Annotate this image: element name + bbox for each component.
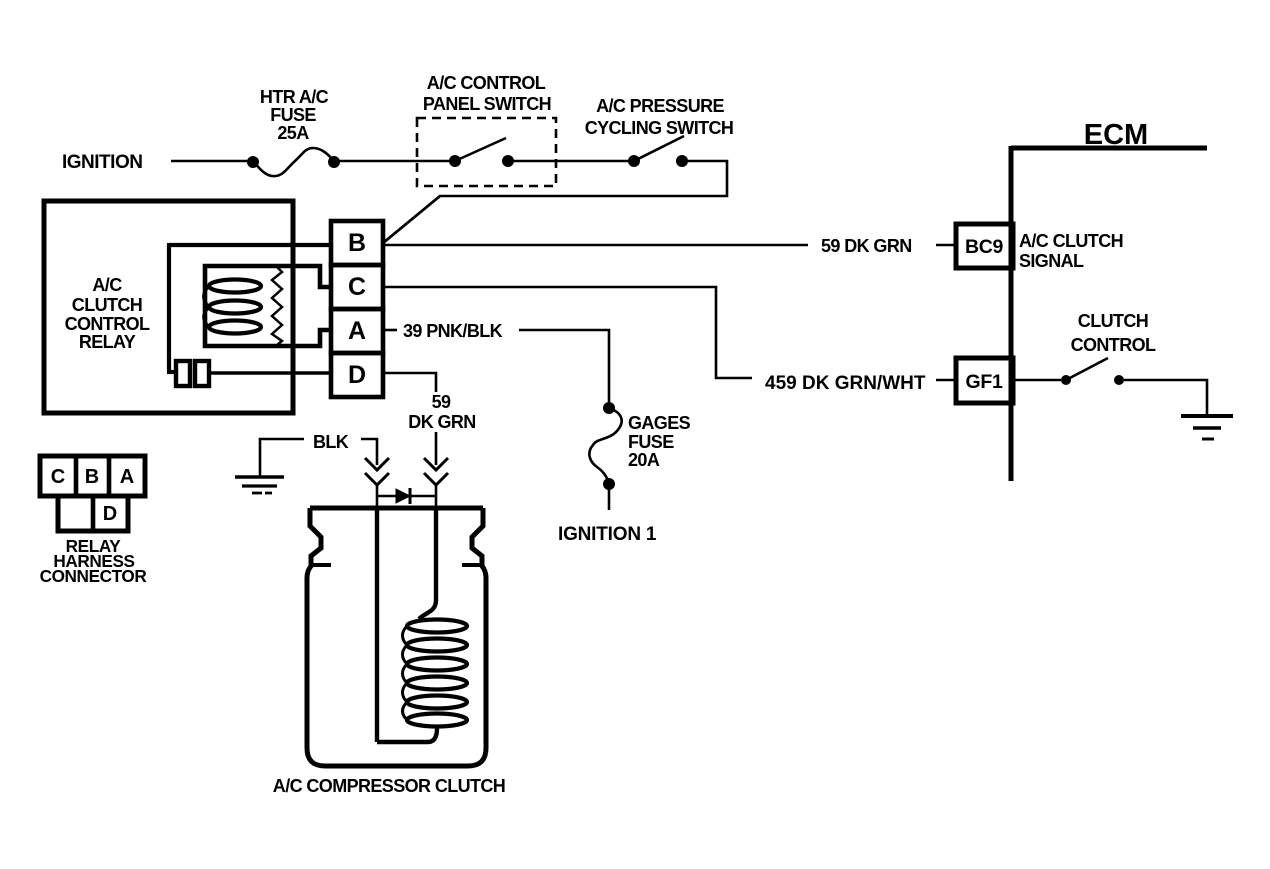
svg-text:20A: 20A [628, 450, 660, 470]
svg-text:A/C PRESSURE: A/C PRESSURE [596, 96, 724, 116]
svg-text:PANEL SWITCH: PANEL SWITCH [423, 94, 551, 114]
svg-text:FUSE: FUSE [628, 432, 674, 452]
svg-text:SIGNAL: SIGNAL [1019, 251, 1084, 271]
svg-text:459 DK GRN/WHT: 459 DK GRN/WHT [765, 373, 926, 394]
svg-text:CONTROL: CONTROL [1071, 335, 1156, 355]
svg-text:A/C CLUTCH: A/C CLUTCH [1019, 231, 1123, 251]
svg-text:RELAY: RELAY [79, 332, 136, 352]
svg-text:IGNITION: IGNITION [62, 152, 142, 173]
svg-text:B: B [348, 229, 366, 257]
svg-text:CLUTCH: CLUTCH [72, 295, 142, 315]
svg-text:D: D [103, 503, 117, 525]
svg-text:GF1: GF1 [965, 371, 1002, 393]
svg-text:BLK: BLK [313, 432, 349, 452]
svg-text:A: A [348, 317, 366, 345]
svg-text:59: 59 [432, 392, 451, 412]
svg-text:C: C [51, 466, 65, 488]
svg-text:FUSE: FUSE [270, 105, 316, 125]
svg-text:59 DK GRN: 59 DK GRN [821, 236, 912, 256]
svg-text:C: C [348, 273, 366, 301]
svg-text:BC9: BC9 [965, 236, 1004, 258]
svg-text:A/C: A/C [92, 275, 122, 295]
svg-text:HTR A/C: HTR A/C [260, 87, 329, 107]
svg-text:A/C COMPRESSOR CLUTCH: A/C COMPRESSOR CLUTCH [273, 776, 505, 796]
svg-text:GAGES: GAGES [628, 413, 691, 433]
svg-text:A: A [120, 466, 134, 488]
svg-text:25A: 25A [277, 123, 309, 143]
svg-text:CONNECTOR: CONNECTOR [40, 566, 148, 586]
svg-text:B: B [85, 466, 99, 488]
svg-text:IGNITION 1: IGNITION 1 [558, 524, 657, 545]
svg-text:A/C CONTROL: A/C CONTROL [427, 73, 546, 93]
svg-text:CONTROL: CONTROL [65, 314, 150, 334]
svg-text:39 PNK/BLK: 39 PNK/BLK [403, 321, 503, 341]
svg-text:CLUTCH: CLUTCH [1078, 311, 1148, 331]
svg-text:CYCLING SWITCH: CYCLING SWITCH [585, 118, 734, 138]
svg-text:DK GRN: DK GRN [408, 412, 475, 432]
svg-text:D: D [348, 361, 366, 389]
